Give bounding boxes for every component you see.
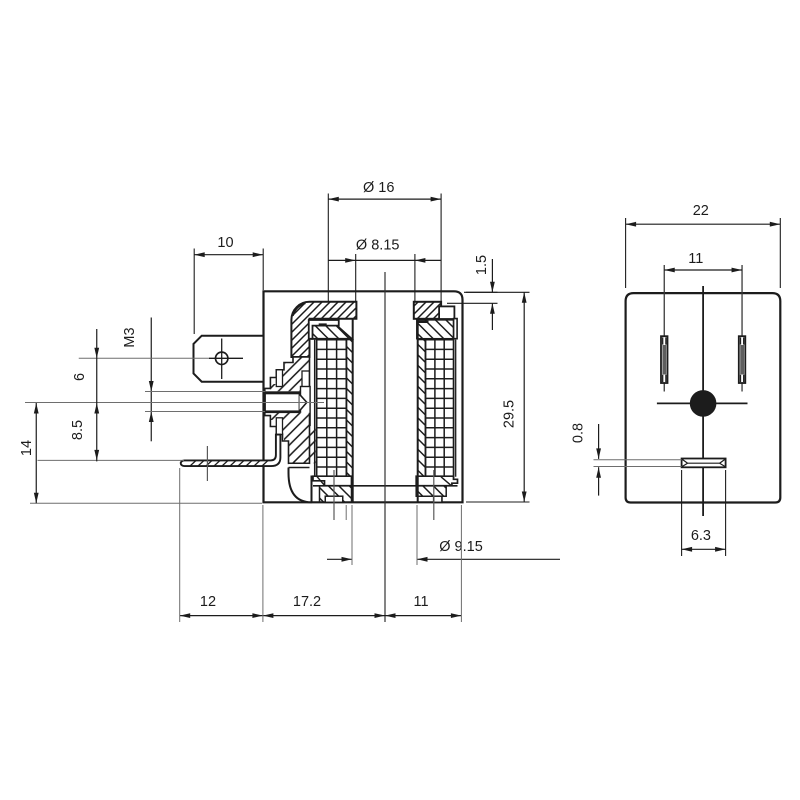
hole center extension xyxy=(79,357,209,359)
bobbin top flange right (hatched) xyxy=(417,320,454,339)
svg-text:11: 11 xyxy=(688,251,703,267)
svg-text:8.5: 8.5 xyxy=(70,420,86,440)
bottom flange right lip xyxy=(416,476,457,486)
potting wedge above (hatched /) xyxy=(278,357,310,378)
bobbin tube wall left (hatched strip) xyxy=(346,340,352,477)
svg-text:Ø 8.15: Ø 8.15 xyxy=(356,238,400,254)
bobbin lip L-profile left xyxy=(309,320,339,339)
crimp dark dash right xyxy=(418,321,429,323)
screw axis line xyxy=(25,402,324,404)
svg-text:11: 11 xyxy=(413,594,428,610)
screw edge extension lines xyxy=(145,391,265,393)
core bore walls xyxy=(352,319,354,503)
svg-text:14: 14 xyxy=(19,440,35,456)
terminal hatch ticks xyxy=(190,461,268,467)
connector zone below screw xyxy=(265,413,310,464)
bobbin boss band above screw (hatched) xyxy=(270,378,309,391)
bottom slot xyxy=(682,459,726,468)
white slot upper xyxy=(276,370,282,387)
svg-text:0.8: 0.8 xyxy=(571,423,587,443)
left foot xyxy=(325,496,343,502)
white strip above arc xyxy=(289,464,310,468)
center black circle xyxy=(690,390,717,417)
potting wedge below (hatched /) xyxy=(278,425,316,463)
tab centerline xyxy=(206,446,208,481)
svg-text:6.3: 6.3 xyxy=(691,528,711,544)
white slot lower xyxy=(276,418,282,435)
bobbin boss band below screw (hatched) xyxy=(270,413,309,426)
spade terminal upper tab xyxy=(194,336,264,382)
bore shoulder line xyxy=(313,485,458,487)
bobbin tube wall right (hatched strip) xyxy=(418,340,426,477)
potting inner corner arc xyxy=(293,303,306,316)
winding grid right xyxy=(426,340,454,477)
top washer right band hatched xyxy=(414,302,441,319)
svg-text:6: 6 xyxy=(72,373,88,381)
horizontal cross line xyxy=(657,402,748,404)
white boss pocket at screw tip xyxy=(301,387,311,426)
body bottom extension left xyxy=(30,502,262,504)
11 extension lines through slots xyxy=(663,265,665,392)
svg-text:17.2: 17.2 xyxy=(293,594,321,610)
tab hole xyxy=(216,352,228,364)
potting lower corner outline (white) xyxy=(289,468,312,503)
left slot terminal pin xyxy=(661,336,668,383)
body outline xyxy=(626,293,781,502)
white notch right upper xyxy=(302,371,309,390)
right slot terminal pin xyxy=(739,336,746,383)
svg-text:M3: M3 xyxy=(122,327,138,347)
center vertical line xyxy=(702,286,704,516)
terminal screw M3 xyxy=(265,393,300,411)
svg-text:Ø 16: Ø 16 xyxy=(363,180,394,196)
potting encapsulation hatched (top-left band + upper column) xyxy=(291,302,356,357)
svg-text:12: 12 xyxy=(200,594,216,610)
right foot xyxy=(434,496,442,502)
svg-text:22: 22 xyxy=(693,203,709,219)
svg-text:10: 10 xyxy=(217,235,233,251)
connector zone above screw xyxy=(265,357,310,391)
winding grid left xyxy=(317,340,347,477)
bobbin top flange left (hatched) xyxy=(312,326,352,339)
coil body outer housing outline xyxy=(264,291,463,502)
tab top extension xyxy=(38,459,185,461)
svg-text:1.5: 1.5 xyxy=(474,255,490,275)
center axis line xyxy=(384,272,386,622)
bottom flange left lip xyxy=(313,476,352,486)
pole piece step right xyxy=(439,306,454,319)
bottom flange right hatched block xyxy=(416,486,446,503)
svg-text:29.5: 29.5 xyxy=(502,400,518,428)
spade terminal lower (bent) xyxy=(181,435,281,467)
feet centerlines xyxy=(333,470,335,520)
crimp dark dash xyxy=(319,323,327,325)
bottom flange left hatched block xyxy=(320,486,352,503)
